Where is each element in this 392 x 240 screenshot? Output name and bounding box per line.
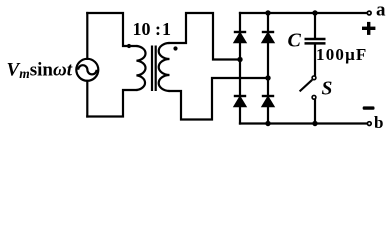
terminal a circle bbox=[367, 11, 371, 15]
wire: source bottom lead bbox=[86, 81, 88, 117]
svg-text:S: S bbox=[322, 79, 333, 100]
node: junction secondary-bottom to right branch bbox=[265, 75, 270, 80]
wire: bottom output rail to terminal b bbox=[240, 122, 366, 124]
svg-text:100μF: 100μF bbox=[316, 45, 368, 64]
wire: capacitor to switch bbox=[314, 45, 316, 76]
svg-text:Vmsinωt: Vmsinωt bbox=[7, 60, 73, 82]
node: right branch on top rail bbox=[265, 10, 270, 15]
wire: switch to bottom rail bbox=[314, 100, 316, 124]
wire: secondary bottom staircase to bridge right mid-node bbox=[170, 78, 269, 120]
diode D1 (bridge top-left) bbox=[234, 32, 247, 43]
label minus bbox=[363, 106, 375, 109]
diode D4 (bridge bottom-right) bbox=[262, 96, 275, 107]
wire: secondary top staircase to bridge left mid-node bbox=[170, 13, 241, 60]
secondary polarity dot bbox=[173, 46, 177, 50]
diode D3 (bridge bottom-left) bbox=[234, 96, 247, 107]
svg-text:b: b bbox=[374, 113, 383, 132]
transformer T1 primary winding bbox=[137, 46, 146, 90]
wire: primary loop top bbox=[87, 13, 136, 46]
diode D2 (bridge top-right) bbox=[262, 32, 275, 43]
transformer T1 secondary winding bbox=[159, 43, 170, 91]
node: right branch on bottom rail bbox=[265, 121, 270, 126]
wire: top output rail to terminal a bbox=[240, 12, 366, 14]
wire: bridge left branch bbox=[239, 13, 241, 124]
terminal b circle bbox=[367, 122, 371, 126]
wire: source top lead bbox=[86, 13, 88, 59]
primary polarity dot bbox=[127, 44, 131, 48]
node: capacitor branch on top rail bbox=[312, 10, 317, 15]
transformer core bbox=[152, 46, 156, 92]
ac source V1 bbox=[76, 59, 98, 81]
switch S bbox=[300, 76, 316, 99]
wire: capacitor branch upper bbox=[314, 13, 316, 38]
svg-text:C: C bbox=[288, 30, 302, 52]
node: switch branch on bottom rail bbox=[312, 121, 317, 126]
svg-text:a: a bbox=[376, 0, 386, 21]
capacitor C plates bbox=[305, 39, 326, 43]
label + bbox=[362, 22, 375, 35]
wire: bridge right branch bbox=[267, 13, 269, 124]
wire: primary loop bottom bbox=[87, 90, 136, 117]
svg-text:10 : 1: 10 : 1 bbox=[133, 19, 172, 39]
node: junction secondary-top to left branch bbox=[237, 57, 242, 62]
